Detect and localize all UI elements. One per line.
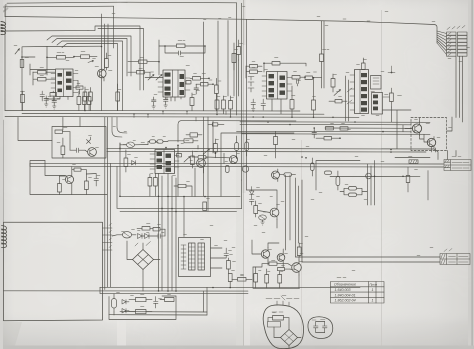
winding taps comb left — [181, 245, 186, 269]
diode left low — [132, 161, 136, 166]
cap below IC3 b — [261, 99, 266, 110]
junction dots TM — [158, 45, 214, 85]
transistor VT upper in dashed box — [412, 124, 421, 133]
connector labels squiggles — [447, 26, 465, 30]
small bits left of IC3 — [248, 77, 254, 93]
arrow label — [15, 49, 20, 55]
svg-text:Обозначение: Обозначение — [334, 283, 356, 287]
wire y46.5 extension to VT1 — [47, 45, 102, 47]
rect right cluster — [165, 298, 175, 302]
resistor vert right of U6 — [191, 156, 195, 165]
wires below IC1 — [46, 97, 68, 100]
transistor VT lower in dashed box — [427, 138, 435, 146]
oval with slash — [122, 232, 131, 238]
IC U1 pin cells right — [58, 72, 72, 93]
right edge shading — [468, 0, 474, 349]
junction dots buses — [267, 121, 384, 139]
components x210-230 y150-170 — [214, 144, 218, 153]
wire y157 right — [395, 157, 430, 159]
wire y176 long — [330, 175, 420, 177]
resistor on bus — [326, 127, 334, 130]
bus y131.5 — [237, 130, 412, 133]
box right of U5 top — [371, 76, 382, 90]
trimmer right of U6 — [184, 157, 190, 163]
box outline lower amp — [30, 161, 107, 195]
ground symbols below IC2 — [152, 106, 156, 109]
svg-text:1: 1 — [372, 288, 374, 292]
trimmer diagonal marks — [148, 75, 154, 81]
diode pair loop x348-359 — [349, 187, 357, 191]
resistor rect a — [136, 298, 147, 302]
resistor vertical Rb — [89, 92, 93, 101]
wires to lower connector — [296, 257, 441, 262]
vertical resistor x321 — [320, 54, 324, 62]
capacitor in loop — [165, 46, 205, 55]
horizontal bus y69 into IC1 — [30, 64, 55, 75]
wires cluster2 — [253, 257, 299, 288]
circle low b — [242, 166, 248, 172]
bus y134 — [242, 133, 431, 136]
cap b in potato — [323, 322, 328, 333]
IC U6 pin stubs — [150, 154, 179, 169]
IC U1 body — [56, 69, 74, 97]
wire top B — [5, 5, 114, 8]
wires in balloon — [268, 318, 301, 349]
transistor VT x274 y212 — [270, 208, 279, 217]
pins top of balloon — [277, 301, 289, 306]
svg-text:1.840.004-01: 1.840.004-01 — [335, 293, 356, 297]
label dot x392 y72 — [388, 66, 395, 73]
ground below oval — [261, 222, 265, 225]
cap lower amp — [94, 174, 99, 187]
IC U6 body — [155, 150, 175, 174]
resistor right of VT1 — [105, 59, 109, 68]
bus y128 partial — [325, 127, 411, 129]
IC U3 body — [267, 72, 288, 100]
IC U3 pin cells — [269, 74, 286, 97]
wire left D — [5, 30, 88, 32]
capacitor C left of IC1 b — [38, 78, 47, 81]
resistor vert x299 y247 — [297, 247, 301, 256]
transistor VT big — [292, 263, 302, 273]
box partial — [253, 267, 300, 288]
junction dots TC — [263, 62, 314, 78]
wire bus into IC2 — [145, 72, 163, 77]
wire from U5 right going right — [383, 107, 412, 149]
vertical wires x234-241 upper — [234, 53, 239, 96]
resistor pair right of IC1 — [76, 86, 83, 89]
resistor in balloon — [273, 316, 284, 321]
wires y163-166 long pair to connector — [30, 162, 444, 165]
wire vertical x113.5 — [113, 6, 115, 48]
buses y208-211 — [117, 208, 242, 211]
wire y57 — [22, 56, 35, 58]
junction dots IC6 — [119, 145, 216, 155]
bundle x203-228 from top to mid — [204, 21, 229, 111]
svg-text:Прим: Прим — [370, 282, 378, 286]
arrows labels — [347, 88, 352, 104]
arrow mark — [88, 60, 94, 62]
vertical x102.5-104.8 wires going down — [108, 117, 111, 287]
oval resistor x326 — [325, 171, 332, 174]
oval resistor x338 y176-186 — [336, 177, 340, 186]
diode in amp — [87, 137, 91, 144]
text line continuation label — [266, 296, 299, 301]
trimmer diag — [334, 90, 341, 96]
resistor left a — [139, 60, 148, 63]
module box rounded top — [178, 121, 296, 142]
verticals x180-200 — [184, 168, 195, 237]
wires y148-151 long pair — [107, 148, 438, 159]
pins on box right — [103, 228, 113, 250]
resistor loop top — [177, 44, 186, 48]
wires in potato — [316, 322, 325, 333]
wires transistor pair area — [252, 240, 283, 267]
resistor above U5 — [362, 63, 366, 70]
vertical resistor x275 y136-144 — [274, 137, 278, 145]
small component below — [406, 176, 410, 183]
junction dots TL — [21, 46, 102, 112]
IC U5 pin cells — [361, 73, 367, 112]
connector fan — [437, 31, 447, 55]
wires in amp — [63, 117, 88, 152]
IC U5 body — [355, 70, 369, 114]
vert resistors trio — [254, 274, 258, 283]
long verticals x321-324 — [322, 21, 325, 88]
fold crease right — [381, 10, 382, 349]
resistor vertical Ra — [83, 92, 87, 101]
junction dots buses2 — [158, 287, 231, 292]
components right of U6 — [177, 154, 182, 157]
resistor vert right of transformer — [227, 261, 231, 270]
caps below IC1 — [44, 96, 49, 104]
verticals x285-302 — [286, 175, 303, 262]
wire left entering amp — [18, 117, 52, 166]
wire x423 down from table row — [408, 146, 432, 200]
bottom buses y311-314 — [109, 312, 207, 315]
resistor horiz above IC1 — [57, 56, 66, 60]
wires in dashed box — [405, 118, 429, 142]
left vertical x22 — [21, 52, 23, 111]
IC U2 pin stubs — [158, 78, 190, 92]
coil connector on box left — [2, 226, 7, 248]
vert resistor x230 y273 — [228, 274, 232, 282]
bundle x158-176 down to bottom — [159, 174, 177, 291]
vertical x120 — [117, 143, 120, 208]
resistor R vertical left — [20, 60, 24, 68]
wires IC6 area — [120, 143, 224, 173]
bottom-left corner wash — [0, 322, 22, 349]
fold crease left bright band — [117, 0, 126, 349]
amp box outline — [52, 127, 106, 159]
bridge diamond in balloon — [281, 330, 298, 346]
resistor pair dark x165-174 y91 (between U2 bottom area) — [190, 98, 194, 106]
junction dots mid-right — [236, 149, 404, 177]
box x316 y160 — [316, 161, 360, 191]
junction dots center buses — [119, 196, 206, 213]
diode marks — [122, 300, 126, 305]
small marks near bridge — [135, 242, 151, 247]
vertical x246.5 upper — [246, 20, 248, 125]
IC U2 pin cells — [165, 73, 185, 96]
oval low a — [226, 166, 230, 173]
top-left corner smudges — [0, 5, 8, 14]
small rects — [335, 100, 342, 103]
resistor right of U5 — [390, 93, 394, 102]
wires lower amp — [45, 161, 96, 195]
wire top C long — [5, 17, 437, 32]
crease at 301 — [301, 140, 302, 349]
second vertical beside box — [104, 117, 106, 289]
bus y124.5 — [240, 123, 411, 126]
electrolytic cap vertical oval — [112, 299, 117, 309]
transistor VT right of U6 — [197, 159, 206, 168]
resistor vert b — [85, 181, 89, 190]
vertical rect pair x78-83 — [77, 97, 81, 105]
label in balloon — [272, 311, 283, 313]
resistor right of U2 a — [186, 81, 191, 84]
resistor vert a — [58, 184, 62, 193]
wire — [241, 3, 243, 180]
zener diode x251 — [250, 187, 255, 200]
resistor oval right of VT — [284, 173, 292, 177]
oval x262 y217 — [259, 215, 267, 220]
resistor y137 — [324, 137, 332, 140]
resistor on box top — [212, 123, 218, 126]
transistor VT x281 y257 — [277, 254, 285, 262]
title table text — [334, 282, 377, 302]
stacked resistors left of IC3 — [250, 65, 258, 68]
hatched resistor on wire y161 — [409, 160, 418, 164]
IC U1 left pin stubs — [51, 74, 56, 93]
resistor vert x205 y202 — [203, 202, 207, 211]
double diode row — [138, 234, 143, 239]
ladder internal diagonal marks — [448, 33, 451, 56]
vertical resistor x216 — [215, 85, 219, 94]
resistor horiz top2 — [278, 268, 285, 271]
coil connector left edge — [1, 22, 6, 35]
cap mid cluster — [154, 297, 159, 309]
resistor right b — [305, 76, 313, 80]
transistor VT lower amp — [65, 175, 73, 183]
oval resistor x312 — [311, 163, 315, 171]
bus y122 — [240, 121, 430, 124]
resistor horiz lower amp — [74, 168, 81, 171]
fold crease center — [243, 0, 244, 349]
cap on bus — [312, 128, 317, 138]
staircase bundle top-left — [88, 26, 140, 90]
resistor vert left x126 — [124, 158, 128, 167]
cap x160 y236 — [157, 234, 165, 239]
tick stubs on bus y113-117 — [134, 111, 226, 122]
box outline mid — [221, 133, 294, 196]
small rect in module — [190, 133, 198, 137]
resistor x117 vertical — [116, 92, 120, 101]
cap right of transformer — [224, 248, 229, 258]
wires out of transformer right — [211, 248, 227, 268]
verticals x203-207 bottom — [204, 287, 208, 315]
left edge vertical faint — [3, 120, 5, 222]
bus y196 — [120, 195, 240, 197]
verticals below connector — [456, 56, 463, 122]
vertical oval resistor a — [235, 143, 239, 151]
vertical bundle x101-108 — [102, 14, 109, 111]
resistor horiz y186 — [178, 184, 186, 187]
resistor rect b — [136, 310, 147, 314]
IC U6 pin cells — [157, 152, 172, 172]
IC U1 right pin stubs — [73, 74, 80, 93]
resistor right of U2 c — [201, 83, 209, 86]
wire top A — [7, 2, 237, 3]
resistor vert x256 y205 — [254, 206, 258, 214]
windings bars — [189, 243, 196, 270]
trimmer arrow mid — [204, 149, 210, 154]
small rects pair — [142, 227, 150, 231]
left edge smudge — [0, 0, 3, 349]
cap a in potato — [314, 322, 319, 333]
resistor oval into box — [198, 155, 206, 159]
verticals x345-349 — [346, 76, 349, 121]
resistor horiz row b — [184, 139, 193, 143]
transistor x275 y175 — [272, 171, 280, 179]
resistor on bus b — [340, 127, 348, 130]
labels in potato — [312, 319, 325, 322]
ground symbols below IC1 — [45, 104, 49, 107]
svg-text:1.640.003: 1.640.003 — [335, 288, 351, 292]
transistor VT1 top-left — [98, 69, 107, 78]
cap right of U3 — [297, 80, 299, 87]
resistor right of U3 — [292, 76, 300, 80]
three vertical resistors row — [215, 100, 219, 109]
capacitor C left of IC1 a — [38, 71, 47, 74]
resistor left b — [137, 71, 145, 74]
small transistor x368 y176 — [366, 173, 372, 179]
bottom edge — [0, 346, 474, 349]
cap x251 y199 — [249, 200, 254, 206]
wires from dashed box to table — [448, 151, 457, 160]
vertical rect x89 — [87, 97, 91, 105]
transistor VT x265 y254 — [261, 250, 269, 258]
verticals x242-247 — [242, 125, 247, 209]
ground below IC3 — [252, 109, 256, 112]
rect x52 — [50, 93, 57, 97]
vertical resistor x333 — [331, 79, 335, 88]
resistor right of U2 b — [193, 77, 201, 81]
vertical resistor below x292 — [290, 100, 294, 110]
wire y46.5 top of IC1 cluster — [22, 47, 47, 53]
transistor mid box — [230, 156, 238, 164]
wires cluster — [114, 296, 176, 315]
cluster box partial — [109, 296, 176, 320]
transistor VT in amp — [88, 148, 97, 157]
wire stubs below U2 — [167, 97, 181, 101]
cap x42 — [40, 91, 45, 101]
vertical oval resistor b — [245, 142, 249, 151]
resistor loop above IC3 — [272, 62, 280, 66]
U5 right co-block — [372, 93, 383, 115]
verticals x367-374 — [368, 161, 375, 206]
cap below — [194, 84, 199, 94]
box in balloon — [268, 322, 281, 328]
U5 pin stubs left — [350, 75, 355, 110]
wires around VT — [247, 190, 278, 228]
wires row y236 — [112, 229, 165, 236]
vertical resistor in amp — [61, 146, 65, 155]
transformer outline — [179, 238, 211, 277]
winding stripes — [189, 247, 205, 267]
resistor horiz in amp — [55, 130, 63, 133]
IC U3 pin stubs — [262, 76, 292, 96]
small rect x237-246 y278 — [238, 278, 247, 282]
curved drop wires left — [112, 117, 122, 137]
wire down x159 — [158, 40, 160, 75]
resistor horiz right top — [81, 55, 90, 59]
label above table — [452, 156, 461, 158]
oval hump pair row — [150, 140, 156, 143]
big box outline — [4, 222, 103, 320]
balloon outline — [263, 305, 303, 349]
resistors vert pair y177-186 — [154, 178, 158, 187]
svg-text:1.862.002-04: 1.862.002-04 — [335, 299, 356, 303]
bottom buses TL — [5, 110, 300, 113]
wires right of dashed box — [436, 117, 453, 152]
vertical resistor x313 — [312, 100, 316, 110]
vertical resistors right pair top — [232, 54, 236, 63]
wire from U3 bottom — [272, 99, 281, 114]
diode-resistor x22 — [21, 95, 25, 103]
caps below IC2 — [152, 97, 157, 106]
wire elbow down at 236.5 — [236, 3, 238, 115]
IC U2 body — [163, 70, 185, 97]
connector ladder rows — [447, 32, 468, 56]
svg-text:1: 1 — [372, 299, 374, 303]
cap in amp — [70, 148, 85, 153]
cap below IC3 a — [251, 99, 256, 108]
resistor horiz top — [269, 262, 277, 265]
oval component row y144 — [127, 142, 135, 148]
